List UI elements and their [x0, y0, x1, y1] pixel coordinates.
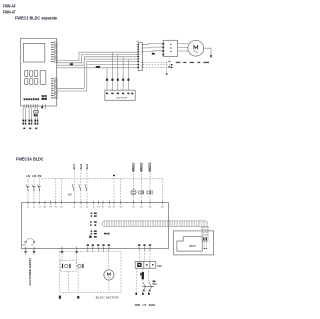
- svg-text:CN: CN: [157, 264, 161, 268]
- svg-text:ACS POWER SUPPLY: ACS POWER SUPPLY: [28, 258, 32, 286]
- svg-text:FWN-AT: FWN-AT: [3, 10, 16, 15]
- svg-text:LN: LN: [26, 174, 30, 178]
- svg-text:FWEC3A BLDC: FWEC3A BLDC: [16, 157, 44, 162]
- svg-text:AC1: AC1: [72, 163, 76, 169]
- svg-text:MOD1: MOD1: [132, 162, 136, 171]
- svg-text:DISPLAY: DISPLAY: [189, 245, 196, 248]
- svg-text:SC: SC: [54, 207, 57, 209]
- svg-text:FWN-AF: FWN-AF: [3, 4, 16, 9]
- svg-text:GND: GND: [135, 304, 141, 307]
- svg-text:FWEC3 BLDC separate: FWEC3 BLDC separate: [15, 16, 57, 21]
- svg-text:LN: LN: [32, 174, 36, 178]
- svg-text:AC: AC: [68, 192, 72, 196]
- svg-text:DR: DR: [161, 207, 165, 209]
- svg-text:BLDC MOTOR: BLDC MOTOR: [96, 295, 120, 299]
- svg-text:MOD2: MOD2: [140, 162, 144, 171]
- svg-text:AC3: AC3: [85, 163, 89, 169]
- svg-text:PE: PE: [38, 174, 42, 178]
- svg-text:EMI FILTER: EMI FILTER: [117, 98, 128, 100]
- svg-text:AC2: AC2: [79, 163, 83, 169]
- svg-text:MOD3: MOD3: [148, 162, 152, 171]
- svg-text:M: M: [137, 41, 139, 43]
- svg-text:SGNL: SGNL: [149, 304, 156, 307]
- svg-text:L/T: L/T: [143, 304, 147, 307]
